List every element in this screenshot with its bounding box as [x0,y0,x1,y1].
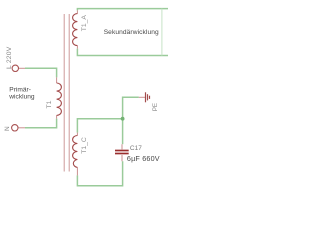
svg-text:Sekundärwicklung: Sekundärwicklung [104,29,159,36]
svg-text:C17: C17 [130,145,142,152]
svg-text:L 220V: L 220V [6,46,13,69]
svg-text:wicklung: wicklung [8,94,35,101]
svg-text:T1_A: T1_A [81,15,88,32]
svg-text:Primär-: Primär- [9,86,31,93]
svg-text:PE: PE [152,103,159,111]
svg-text:N: N [4,126,11,131]
svg-text:T1_C: T1_C [81,137,88,154]
svg-text:T1: T1 [46,100,53,108]
svg-text:6µF 660V: 6µF 660V [127,154,160,163]
